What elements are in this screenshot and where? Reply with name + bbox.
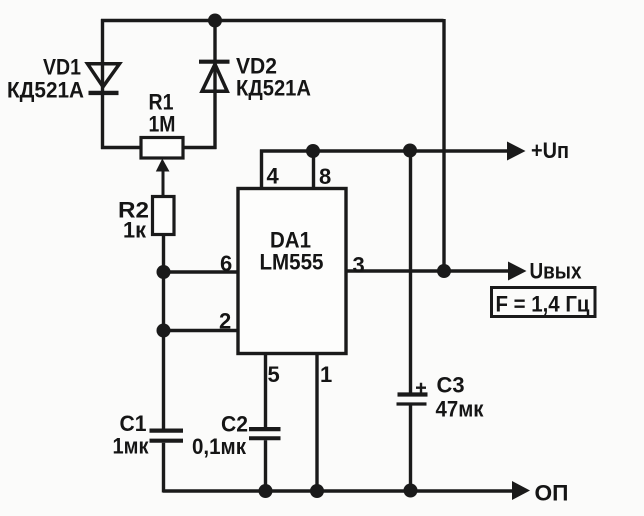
op-amp DA1 (LM555 IC body)	[238, 189, 346, 354]
svg-text:47мк: 47мк	[436, 397, 485, 422]
arrow +Up	[507, 142, 526, 161]
wire pin 6 horizontal	[164, 270, 239, 273]
node junction top rail / VD2	[208, 14, 222, 28]
wire pin 8 vertical	[312, 151, 315, 189]
svg-text:1к: 1к	[123, 218, 147, 243]
wire Uvyh vertical from top rail	[442, 19, 445, 271]
frequency note box F = 1,4 Гц	[492, 288, 596, 317]
node C3 junction on supply rail	[403, 144, 417, 158]
svg-text:1М: 1М	[149, 112, 176, 137]
svg-text:C2: C2	[221, 412, 248, 437]
capacitor C1	[150, 431, 184, 441]
svg-text:C1: C1	[120, 411, 147, 436]
wire pin 5 vertical to C2	[264, 354, 267, 428]
svg-text:8: 8	[319, 164, 331, 189]
diode VD2	[199, 62, 230, 92]
svg-text:1мк: 1мк	[113, 434, 150, 459]
node C2 / ground rail junction	[259, 484, 273, 498]
svg-text:LM555: LM555	[260, 250, 324, 275]
capacitor C3 (electrolytic, polarity +)	[397, 383, 428, 404]
resistor R2	[153, 197, 175, 235]
svg-text:2: 2	[219, 309, 231, 334]
wire C3 branch vertical	[409, 151, 412, 491]
wire bottom-left horizontal to R1	[101, 146, 141, 149]
wire R1 right to VD2 branch	[183, 146, 217, 149]
svg-text:ОП: ОП	[535, 481, 569, 506]
node pin3 / Uvyh junction	[437, 264, 451, 278]
svg-text:КД521А: КД521А	[236, 76, 311, 101]
svg-text:+Uп: +Uп	[531, 138, 569, 163]
svg-text:F = 1,4 Гц: F = 1,4 Гц	[496, 292, 590, 317]
node pin8 junction on supply rail	[306, 144, 320, 158]
svg-text:Uвых: Uвых	[530, 259, 583, 284]
wire +Up supply rail	[260, 149, 511, 152]
capacitor C2	[249, 429, 281, 438]
svg-text:3: 3	[353, 253, 365, 278]
svg-text:4: 4	[267, 164, 280, 189]
svg-text:6: 6	[220, 251, 232, 276]
wire R2 to C1 vertical (pins 6,2 node)	[162, 235, 165, 493]
svg-text:VD1: VD1	[43, 55, 81, 80]
wiper arrow of R1	[156, 159, 170, 198]
wire pin 4 vertical	[260, 150, 263, 189]
svg-text:1: 1	[320, 362, 332, 387]
wire top rail	[101, 19, 444, 22]
node pin1 / ground rail junction	[310, 484, 324, 498]
node pin6 junction	[157, 265, 171, 279]
node pin2 junction	[157, 324, 171, 338]
arrow Uvyh	[508, 262, 527, 281]
wire left vertical (VD1 branch)	[101, 19, 104, 149]
svg-text:КД521А: КД521А	[7, 78, 84, 103]
resistor R1 (potentiometer body)	[141, 138, 183, 159]
node C3 / ground rail junction	[404, 484, 418, 498]
wire pin 3 output horizontal	[346, 269, 512, 272]
svg-text:5: 5	[268, 362, 280, 387]
wire pin 1 vertical to ground rail	[315, 354, 318, 493]
wire ground rail bottom	[163, 489, 516, 492]
arrow OP (common)	[512, 481, 530, 500]
wire C2 bottom to ground rail	[264, 440, 267, 492]
svg-text:C3: C3	[437, 373, 465, 398]
wire VD2 vertical branch	[213, 19, 216, 149]
diode VD1	[88, 64, 120, 93]
svg-text:0,1мк: 0,1мк	[192, 434, 247, 459]
wire pin 2 horizontal	[164, 329, 239, 332]
